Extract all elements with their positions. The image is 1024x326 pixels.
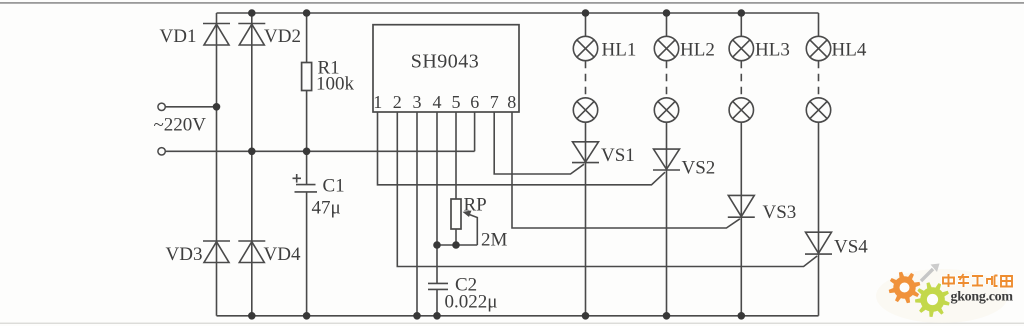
svg-text:47μ: 47μ [312,198,341,219]
svg-text:HL4: HL4 [832,40,867,61]
svg-text:0.022μ: 0.022μ [445,292,498,313]
svg-text:VS1: VS1 [601,145,635,166]
svg-text:HL3: HL3 [755,40,790,61]
svg-text:8: 8 [507,92,516,112]
svg-text:VD3: VD3 [166,244,203,265]
svg-text:3: 3 [413,92,422,112]
svg-text:VD1: VD1 [160,26,197,47]
svg-text:HL2: HL2 [680,40,715,61]
svg-text:100k: 100k [316,74,355,95]
svg-text:4: 4 [433,92,442,112]
svg-text:5: 5 [452,92,461,112]
svg-text:VD2: VD2 [264,26,301,47]
svg-text:1: 1 [373,92,382,112]
svg-text:RP: RP [464,195,487,216]
svg-text:6: 6 [470,92,479,112]
svg-text:VS4: VS4 [834,237,868,258]
svg-text:2: 2 [393,92,402,112]
svg-text:SH9043: SH9043 [411,51,480,73]
svg-text:VS3: VS3 [763,202,797,223]
svg-text:HL1: HL1 [602,40,637,61]
svg-text:VD4: VD4 [264,244,301,265]
svg-text:gkong.com: gkong.com [951,290,1014,305]
svg-text:7: 7 [490,92,499,112]
svg-text:VS2: VS2 [682,158,716,179]
svg-text:C1: C1 [323,176,345,197]
svg-text:~220V: ~220V [154,115,207,136]
svg-text:2M: 2M [481,230,508,251]
